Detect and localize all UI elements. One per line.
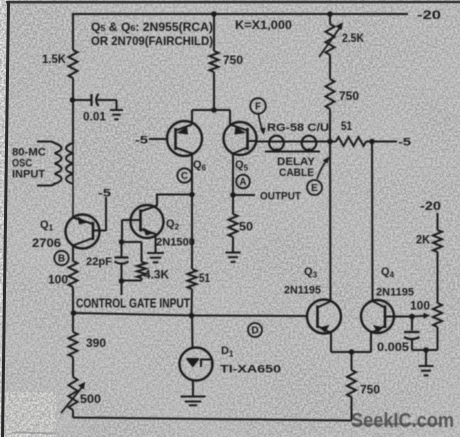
- node B: [54, 251, 68, 265]
- Q6 emitter arrow: [177, 127, 189, 135]
- wire 2.5K to 750: [329, 55, 331, 79]
- wire Q4 emitter down: [370, 333, 372, 353]
- wire Q2 collector up: [156, 195, 158, 207]
- wire to 750 bottom: [351, 352, 353, 370]
- transistor Q1: [66, 215, 100, 249]
- wire 2.5K top: [329, 14, 331, 24]
- Q5 emitter arrow: [235, 127, 247, 135]
- wire 51h left: [330, 141, 336, 143]
- ground 50: [226, 252, 241, 254]
- svg-text:750: 750: [360, 385, 380, 397]
- svg-text:2706: 2706: [32, 238, 61, 250]
- node output junction: [230, 192, 236, 198]
- Q5 collector lead: [233, 148, 248, 154]
- wire to 22pF: [121, 242, 123, 257]
- node 22pF bottom: [119, 278, 125, 284]
- wire coil to Q1: [72, 143, 74, 218]
- Q4 emitter lead: [371, 326, 385, 333]
- resistor R 1.5K: [69, 50, 78, 78]
- node F: [250, 98, 266, 114]
- svg-text:A: A: [239, 177, 246, 188]
- wire pot bottom: [437, 327, 439, 350]
- svg-text:INPUT: INPUT: [12, 169, 45, 181]
- svg-text:OUTPUT: OUTPUT: [260, 191, 301, 203]
- wire Q2 base elbow: [121, 220, 123, 242]
- wire Q5 base to junction: [248, 140, 257, 142]
- node -5 junction: [369, 139, 375, 145]
- Q2 base bar: [139, 210, 142, 232]
- node Q2 collector join: [189, 192, 195, 198]
- wire 750 bottom: [213, 72, 215, 110]
- resistor 750 bottom: [347, 370, 356, 397]
- capacitor 22pF: [115, 256, 129, 258]
- wire 100 to bus: [72, 287, 74, 313]
- svg-text:100: 100: [48, 275, 68, 287]
- Q2 emitter arrow: [143, 228, 154, 236]
- transistor Q5: [224, 122, 257, 155]
- capacitor 0.01: [90, 94, 92, 106]
- svg-text:1.5K: 1.5K: [42, 54, 67, 66]
- node A: [236, 175, 250, 189]
- connector circle 1: [269, 136, 284, 151]
- wire cap to ground: [98, 99, 117, 101]
- wire 390 to 500: [72, 357, 74, 377]
- Q2 base wire: [122, 219, 141, 221]
- wire 750 to bottom rail: [351, 397, 353, 421]
- Q4 collector lead: [373, 301, 386, 308]
- wire emitter bus Q3 Q4: [331, 351, 371, 353]
- node delay junction: [327, 139, 333, 145]
- wire D1 to gnd: [192, 381, 194, 397]
- wire left rail mid: [72, 78, 74, 144]
- Q2 collector lead: [141, 206, 158, 212]
- svg-text:4.3K: 4.3K: [144, 270, 170, 282]
- connector circle 2: [302, 136, 317, 151]
- resistor 390: [69, 332, 78, 357]
- arrow E: [317, 161, 326, 179]
- Q3 base bar: [316, 306, 319, 329]
- svg-text:SeekIC.com: SeekIC.com: [351, 410, 454, 432]
- node gate bus left: [71, 310, 77, 316]
- node D: [248, 323, 262, 337]
- potentiometer 2.5K: [326, 24, 335, 55]
- svg-text:CONTROL GATE INPUT: CONTROL GATE INPUT: [76, 297, 190, 311]
- transistor Q6: [167, 121, 202, 156]
- svg-text:RG-58 C/U: RG-58 C/U: [267, 122, 329, 134]
- resistor 50: [229, 214, 238, 237]
- wire 51 to gate bus: [191, 289, 194, 316]
- svg-text:D: D: [251, 326, 258, 337]
- wire Q3 collector up: [329, 142, 332, 302]
- svg-text:2N1500: 2N1500: [156, 237, 195, 249]
- svg-text:-5: -5: [398, 137, 411, 149]
- wire 50 to gnd: [232, 237, 234, 252]
- svg-text:0.01: 0.01: [83, 112, 107, 124]
- svg-text:OR 2N709(FAIRCHILD): OR 2N709(FAIRCHILD): [91, 36, 213, 48]
- svg-text:K=X1,000: K=X1,000: [235, 20, 292, 32]
- wire bus to 390: [72, 313, 74, 332]
- wire Q3 emitter down: [330, 333, 332, 353]
- node Q4 base junction: [409, 314, 415, 320]
- svg-text:-20: -20: [417, 8, 441, 22]
- wire 2K to pot: [437, 252, 439, 303]
- Q6 collector lead: [176, 148, 193, 154]
- svg-text:500: 500: [80, 394, 101, 406]
- wire Q6 collector down: [191, 153, 193, 269]
- wire top -20 rail: [73, 13, 408, 15]
- svg-text:750: 750: [223, 55, 243, 67]
- ground D1: [181, 396, 206, 398]
- svg-text:E: E: [311, 183, 318, 194]
- node shield 1: [274, 148, 278, 152]
- wire 22pF bottom: [121, 264, 123, 282]
- node top 2.5K: [327, 11, 333, 17]
- Q1 base bar: [92, 222, 95, 240]
- node top 750: [211, 11, 217, 17]
- wire 4.3K bottom: [141, 278, 143, 281]
- Q5 base bar: [246, 128, 249, 150]
- inductor input winding: [37, 142, 62, 186]
- potentiometer 500: [69, 377, 78, 410]
- svg-text:51: 51: [199, 273, 211, 285]
- Q3 emitter arrow: [319, 325, 330, 333]
- Q1 base wire to -5: [93, 230, 106, 232]
- diode D1 tunnel: [180, 348, 213, 381]
- wire emitter bus: [192, 109, 230, 111]
- svg-text:22pF: 22pF: [86, 256, 112, 268]
- Q4 emitter arrow: [373, 325, 384, 333]
- Q1 collector lead: [73, 238, 93, 246]
- wire 750 to delay junction: [329, 109, 331, 142]
- node shield 2: [307, 148, 311, 152]
- node cap tap: [70, 97, 76, 103]
- resistor 51 vertical: [188, 269, 197, 289]
- inductor tank winding: [66, 143, 73, 184]
- svg-text:51: 51: [341, 121, 353, 133]
- node C: [177, 168, 191, 182]
- wire 4.3K top: [122, 241, 142, 243]
- Q3 emitter lead: [318, 326, 332, 333]
- transistor Q2: [131, 205, 164, 238]
- wire Q6 emitter up: [191, 110, 193, 125]
- svg-text:-5: -5: [135, 135, 148, 147]
- svg-text:-20: -20: [420, 199, 441, 213]
- node gnd junction: [423, 347, 429, 353]
- Q6 base bar: [174, 128, 177, 150]
- svg-text:2N1195: 2N1195: [376, 287, 414, 299]
- wire -20 to 2K: [437, 213, 439, 230]
- svg-text:F: F: [255, 102, 261, 113]
- wire gnd stem: [425, 350, 427, 366]
- svg-text:100: 100: [410, 301, 430, 313]
- svg-text:2.5K: 2.5K: [342, 33, 365, 45]
- pot wiper arrow: [412, 315, 425, 318]
- resistor 100: [69, 261, 78, 287]
- arrow F: [259, 114, 263, 130]
- wire Q2 emitter to gnd: [155, 234, 157, 253]
- svg-text:2K: 2K: [416, 235, 431, 247]
- wire Q1 to 100: [72, 245, 74, 261]
- node gate bus mid: [189, 313, 195, 319]
- Q3 collector lead: [318, 301, 332, 308]
- svg-text:2N1195: 2N1195: [284, 285, 321, 297]
- resistor 51 horizontal: [336, 137, 366, 146]
- wire to 0.01 cap: [73, 99, 92, 101]
- Q6 emitter lead: [176, 125, 193, 131]
- svg-text:CABLE: CABLE: [279, 167, 314, 179]
- Q1 emitter arrow: [78, 217, 89, 225]
- Q5 emitter lead: [230, 125, 248, 131]
- svg-text:Q5 & Q6: 2N955(RCA): Q5 & Q6: 2N955(RCA): [91, 22, 213, 34]
- ground right: [419, 365, 434, 367]
- svg-text:-5: -5: [98, 188, 111, 200]
- wire to D1: [191, 316, 194, 348]
- node 22pF top: [119, 239, 125, 245]
- resistor 2K: [433, 230, 442, 252]
- resistor 750 mid: [326, 79, 335, 109]
- transistor Q4: [361, 300, 394, 333]
- ground 0.01: [110, 109, 123, 111]
- node E: [307, 180, 322, 195]
- wire Q5 emitter up: [229, 110, 231, 125]
- capacitor 0.005: [404, 331, 420, 333]
- wire 51h right: [366, 141, 372, 143]
- node 750 emitter bus: [211, 107, 217, 113]
- svg-text:750: 750: [339, 91, 359, 103]
- svg-text:0.005: 0.005: [377, 342, 410, 354]
- wire 0.005 to gnd bus: [411, 339, 413, 350]
- wire cable shield: [265, 151, 320, 153]
- wire Q4 base right: [385, 316, 412, 318]
- wire -5 stub: [372, 141, 397, 143]
- svg-text:B: B: [58, 254, 65, 265]
- wire control gate bus: [74, 313, 192, 316]
- potentiometer 100: [433, 303, 442, 327]
- wire junction to 0.005: [411, 317, 413, 331]
- resistor 750 top: [210, 51, 219, 72]
- Q2 emitter lead: [141, 229, 156, 234]
- ground Q2: [147, 252, 164, 254]
- node emitter bus: [349, 349, 355, 355]
- wire 750 top: [213, 14, 215, 51]
- resistor 4.3K: [137, 262, 146, 278]
- svg-text:TI-XA650: TI-XA650: [220, 364, 281, 376]
- wire Q4 collector up: [371, 142, 374, 302]
- wire to 50: [232, 195, 234, 214]
- wire Q5 collector down: [232, 153, 234, 195]
- wire stub to gate bus: [121, 281, 123, 295]
- svg-text:50: 50: [239, 222, 253, 234]
- Q4 base bar: [384, 306, 387, 329]
- wire -5 to Q6 base: [149, 138, 168, 140]
- svg-text:C: C: [181, 171, 188, 182]
- Q1 emitter lead: [73, 218, 93, 225]
- svg-text:390: 390: [86, 338, 106, 350]
- wire left rail top: [72, 13, 74, 50]
- wire bottom rail: [72, 410, 74, 418]
- wire output stub: [233, 194, 255, 196]
- transistor Q3: [307, 300, 341, 334]
